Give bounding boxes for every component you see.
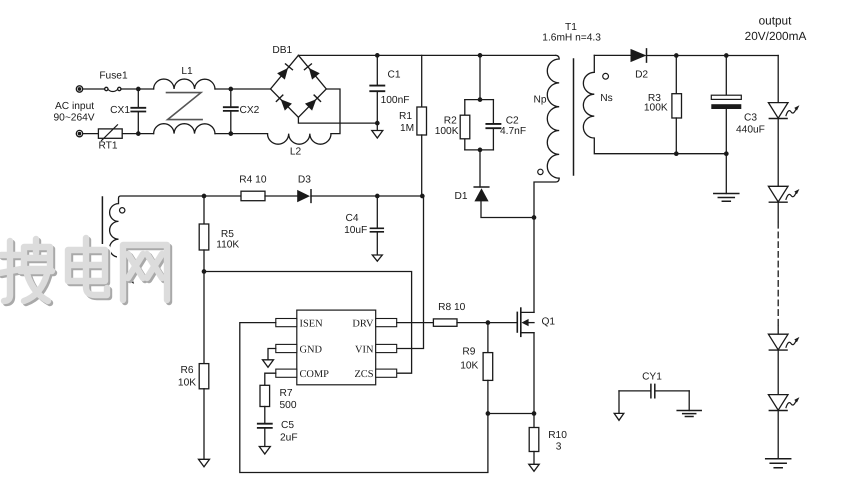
- svg-text:90~264V: 90~264V: [54, 112, 95, 123]
- svg-text:R10: R10: [548, 430, 567, 441]
- svg-text:T1: T1: [565, 22, 577, 33]
- svg-text:110K: 110K: [216, 239, 239, 250]
- svg-text:CY1: CY1: [642, 371, 662, 382]
- svg-text:output: output: [759, 14, 793, 28]
- svg-text:RT1: RT1: [98, 141, 117, 152]
- svg-text:GND: GND: [300, 344, 323, 355]
- svg-text:100nF: 100nF: [381, 95, 410, 106]
- svg-text:C3: C3: [744, 113, 757, 124]
- svg-text:ZCS: ZCS: [354, 369, 373, 380]
- svg-text:D3: D3: [298, 174, 311, 185]
- svg-text:DRV: DRV: [352, 318, 374, 329]
- svg-text:C1: C1: [388, 70, 401, 81]
- svg-text:10uF: 10uF: [344, 225, 367, 236]
- svg-text:VIN: VIN: [355, 344, 374, 355]
- svg-text:Ns: Ns: [600, 93, 612, 104]
- svg-text:20V/200mA: 20V/200mA: [745, 29, 807, 43]
- svg-text:500: 500: [280, 400, 297, 411]
- svg-text:DB1: DB1: [272, 45, 292, 56]
- svg-text:R8 10: R8 10: [438, 302, 466, 313]
- svg-text:C5: C5: [281, 420, 294, 431]
- svg-text:ISEN: ISEN: [300, 318, 324, 329]
- svg-text:10K: 10K: [460, 361, 478, 372]
- svg-text:3: 3: [556, 441, 562, 452]
- svg-text:100K: 100K: [435, 126, 459, 137]
- svg-text:L1: L1: [181, 66, 193, 77]
- svg-text:1M: 1M: [400, 123, 414, 134]
- svg-text:Np: Np: [533, 94, 546, 105]
- svg-text:R9: R9: [462, 347, 475, 358]
- svg-text:D1: D1: [454, 191, 467, 202]
- svg-text:R2: R2: [444, 116, 457, 127]
- svg-text:D2: D2: [635, 69, 648, 80]
- svg-text:R6: R6: [180, 365, 193, 376]
- svg-text:10K: 10K: [178, 378, 196, 389]
- svg-text:Q1: Q1: [542, 317, 556, 328]
- svg-text:R4 10: R4 10: [239, 174, 267, 185]
- svg-text:Fuse1: Fuse1: [99, 71, 128, 82]
- svg-text:C4: C4: [345, 213, 358, 224]
- svg-text:100K: 100K: [644, 102, 668, 113]
- svg-text:C2: C2: [506, 116, 519, 127]
- svg-text:AC input: AC input: [55, 101, 94, 112]
- svg-text:CX2: CX2: [240, 105, 260, 116]
- svg-text:L2: L2: [290, 147, 302, 158]
- svg-text:1.6mH n=4.3: 1.6mH n=4.3: [542, 32, 601, 43]
- svg-text:440uF: 440uF: [736, 125, 765, 136]
- svg-text:R7: R7: [280, 388, 293, 399]
- svg-text:2uF: 2uF: [280, 433, 298, 444]
- svg-text:4.7nF: 4.7nF: [500, 126, 526, 137]
- svg-text:COMP: COMP: [300, 369, 330, 380]
- svg-text:CX1: CX1: [110, 105, 130, 116]
- svg-text:R1: R1: [399, 111, 412, 122]
